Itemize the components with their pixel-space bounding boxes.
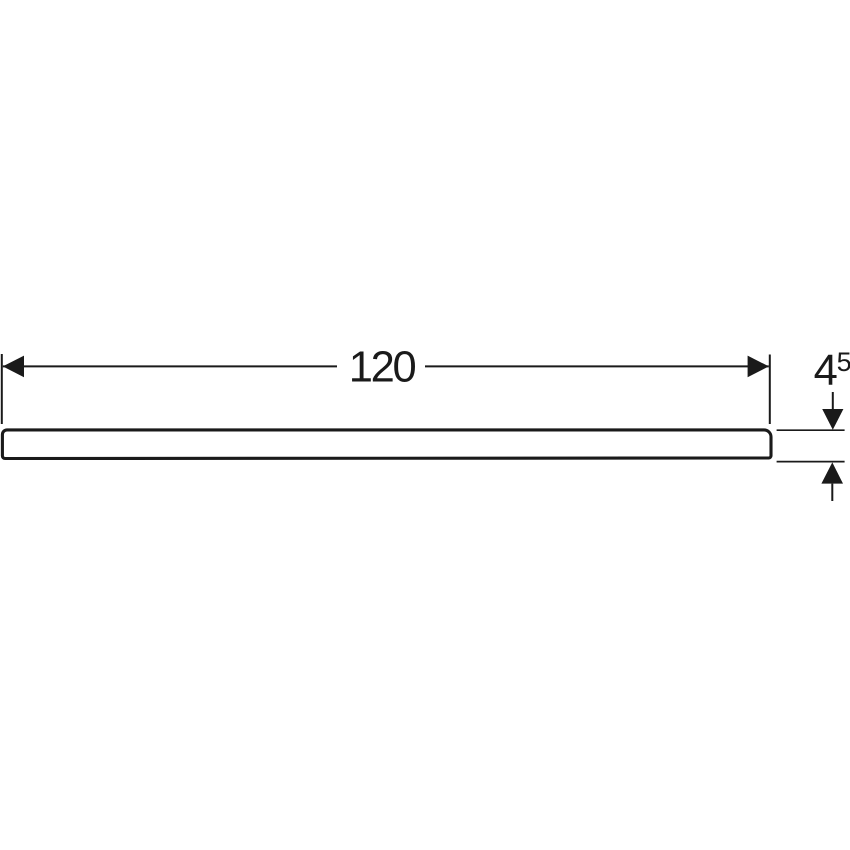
bottom reference line (thickness dimension) <box>777 461 845 463</box>
svg-text:5: 5 <box>837 347 850 377</box>
dimension line left segment <box>3 365 337 367</box>
up arrowhead <box>821 462 843 483</box>
up arrow shaft <box>831 484 833 501</box>
down arrowhead <box>822 409 843 430</box>
right extension line <box>769 355 771 425</box>
right arrowhead <box>748 356 769 378</box>
top reference line (thickness dimension) <box>777 429 845 431</box>
down arrow shaft <box>832 392 834 409</box>
left arrowhead <box>3 356 24 378</box>
svg-text:4: 4 <box>814 347 838 395</box>
dimension line right segment <box>425 365 769 367</box>
left extension line <box>1 354 3 424</box>
svg-text:120: 120 <box>349 343 416 391</box>
shower surface slab outline <box>2 430 771 459</box>
